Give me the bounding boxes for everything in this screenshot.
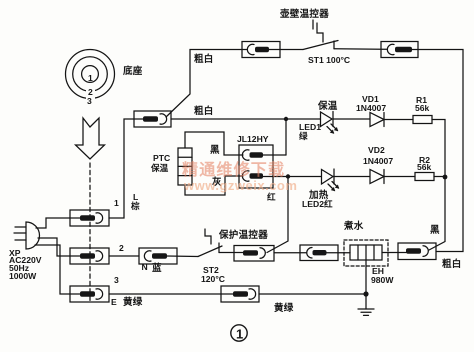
label LED1 绿 [299,122,321,141]
svg-text:VD2: VD2 [368,145,385,155]
label L 棕 [130,192,140,211]
plug XP [14,222,40,249]
switch ST2 [198,243,244,257]
wire XS-E to ground junction [259,293,366,295]
svg-text:保温: 保温 [150,162,169,173]
label XP AC220V 50Hz 1000W [9,248,42,281]
connector XS6 (top row right) [381,42,418,58]
label R1 56k [415,95,430,113]
relay block JL12HY [239,145,273,188]
svg-text:1: 1 [88,73,93,83]
figure number ① [231,325,247,342]
svg-text:粗白: 粗白 [442,258,462,270]
svg-text:56k: 56k [415,103,430,113]
svg-text:精通维修下载: 精通维修下载 [182,160,285,179]
switch ST1 [303,41,387,50]
svg-text:980W: 980W [371,275,394,285]
wire LED2 row [333,176,370,178]
svg-text:黄绿: 黄绿 [274,302,294,314]
wire XS-B to XS-C [274,252,306,254]
svg-text:3: 3 [87,96,92,106]
wire plug to connector 3 [35,245,70,294]
svg-text:1N4007: 1N4007 [363,156,393,166]
svg-text:保温: 保温 [317,100,338,112]
base coil (底座) concentric circles [66,50,115,107]
wire PTC bottom (灰) [185,176,243,195]
svg-text:保护温控器: 保护温控器 [218,229,268,241]
svg-text:黑: 黑 [430,225,440,236]
wire VD1 to R1 [384,119,413,121]
PTC element [178,148,192,185]
wire LED1 to VD1 [333,118,370,120]
svg-text:壶壁温控器: 壶壁温控器 [280,8,329,20]
connector XS-A [139,248,198,264]
svg-text:粗白: 粗白 [194,53,214,65]
junction node A [284,117,288,121]
wire diagonal up to top row [166,50,247,118]
label ST2 120°C [201,265,225,284]
junction node C [443,175,448,180]
label E 黄绿 [111,296,143,308]
wire heater to connector XS-D [382,252,406,254]
resistor R2 56k [415,173,434,181]
svg-text:E: E [111,297,117,307]
svg-text:1000W: 1000W [9,271,37,281]
ground [358,294,374,315]
thermostat symbol ST1 [317,23,323,42]
wire PTC top (黑) [185,132,243,155]
svg-text:3: 3 [114,275,119,285]
connector JL lower [242,171,288,181]
connector XS2 (N line) [70,248,109,264]
connector XS3 (E line) [70,286,109,302]
svg-text:56k: 56k [417,162,432,172]
dashed separation line [89,163,91,303]
svg-text:1: 1 [236,327,243,342]
diode VD1 1N4007 [370,113,384,127]
junction node B [286,174,290,178]
thermostat symbol ST2 [205,229,211,244]
LED2 加热 [322,169,340,191]
connector XS4 (粗白 feed) [134,111,171,127]
connector JL upper [242,150,286,160]
connector XS-D [398,243,436,260]
svg-text:黄绿: 黄绿 [123,296,143,308]
label R2 56k [417,155,432,172]
svg-text:粗白: 粗白 [194,105,214,117]
svg-text:棕: 棕 [130,200,140,211]
connector XS-C [300,245,350,261]
wire junction C down to connector (黑) [429,177,445,250]
svg-text:ST1 100°C: ST1 100°C [308,55,350,65]
wire heater bottom down [365,260,367,294]
resistor R1 56k [413,116,432,124]
wire JL upper to junction A [285,119,287,155]
svg-text:LED2红: LED2红 [302,198,333,209]
connector XS5 (top row left) [242,42,303,58]
svg-text:煮水: 煮水 [343,220,364,232]
label PTC 保温 [150,153,170,173]
wire connector1 up to white row [109,119,134,218]
heater EH 980W [344,240,388,266]
svg-text:1N4007: 1N4007 [356,103,386,113]
wire junction B down to protector connector [267,177,288,253]
label VD2 1N4007 [363,145,393,166]
label EH 980W [371,266,394,285]
svg-text:黑: 黑 [210,145,220,156]
wire plug to connector 2 [38,238,70,256]
svg-text:www.gzweix.com: www.gzweix.com [183,178,297,193]
connector XS1 (L line) [70,210,109,226]
svg-text:PTC: PTC [153,153,170,163]
svg-text:JL12HY: JL12HY [237,134,269,144]
svg-text:2: 2 [119,243,124,253]
wire VD2 to R2 [384,176,415,178]
wire junction B to LED2 [288,176,321,178]
svg-text:绿: 绿 [299,130,308,141]
wire R1 to right column [432,120,445,178]
pointer line [312,20,314,29]
wire white row to LED row [171,118,321,120]
connector XS-E [221,286,259,302]
wire R2 to junction C [434,176,445,178]
LED1 保温 [321,112,339,134]
label N 蓝 [142,262,163,274]
diode VD2 1N4007 [370,170,384,184]
wire connector3 to XS-E [109,293,221,295]
wire top to right edge and down [418,50,463,252]
wire plug to connector 1 [36,218,70,228]
junction node D [363,291,368,296]
label VD1 1N4007 [356,94,386,113]
arrow to base [76,118,105,159]
wire connector2 to XS-A [109,255,139,257]
svg-text:底座: 底座 [122,65,143,77]
svg-text:1: 1 [114,198,119,208]
svg-text:120°C: 120°C [201,274,225,284]
connector XS-B (protector) [234,246,274,262]
